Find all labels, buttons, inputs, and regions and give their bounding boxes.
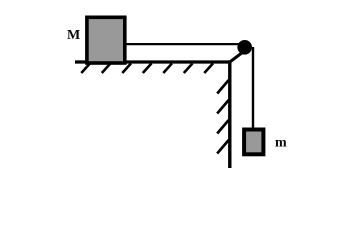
svg-text:m: m	[275, 136, 287, 151]
svg-text:M: M	[67, 28, 80, 43]
